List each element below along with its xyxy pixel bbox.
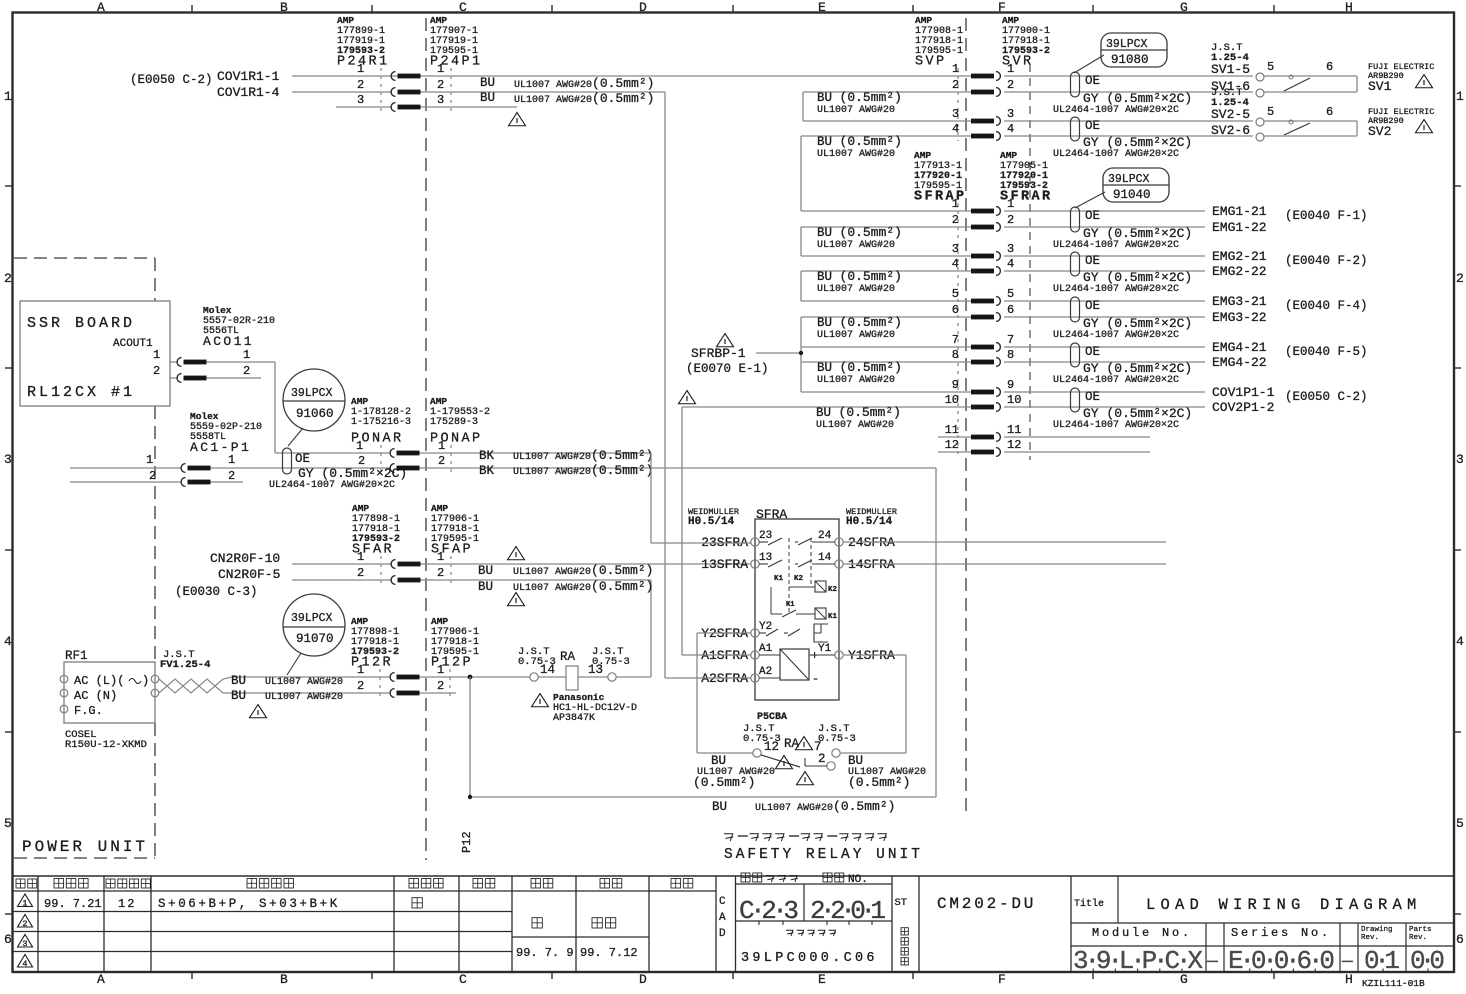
svg-text:ACOUT1: ACOUT1 (113, 338, 153, 350)
svg-text:COV1R1-4: COV1R1-4 (217, 85, 280, 100)
svg-text:13: 13 (588, 663, 603, 677)
svg-text:6: 6 (4, 932, 12, 947)
svg-text:7: 7 (1007, 333, 1014, 347)
svg-text:E·0·0·6·0: E·0·0·6·0 (1228, 946, 1335, 976)
svg-text:A2: A2 (759, 666, 772, 678)
svg-text:EMG2-21: EMG2-21 (1212, 249, 1267, 264)
svg-text:14: 14 (818, 552, 832, 564)
svg-text:SV1: SV1 (1368, 79, 1392, 94)
svg-text:2: 2 (1456, 271, 1464, 286)
svg-text:SV2-5: SV2-5 (1211, 107, 1250, 122)
svg-text:RL12CX #1: RL12CX #1 (27, 384, 135, 401)
svg-text:F: F (998, 972, 1006, 987)
svg-text:SFRBP-1: SFRBP-1 (691, 346, 746, 361)
svg-text:AMP: AMP (430, 15, 447, 26)
svg-text:5: 5 (4, 816, 12, 831)
svg-text:(0.5mm²): (0.5mm²) (848, 775, 910, 790)
svg-text:BU (0.5mm²): BU (0.5mm²) (817, 134, 902, 149)
svg-text:Molex: Molex (190, 411, 219, 422)
svg-text:AMP: AMP (431, 503, 448, 514)
svg-text:AMP: AMP (351, 396, 368, 407)
svg-text:UL2464-1007 AWG#20×2C: UL2464-1007 AWG#20×2C (1053, 330, 1179, 341)
svg-text:BU (0.5mm²): BU (0.5mm²) (817, 315, 902, 330)
svg-text:UL1007 AWG#20: UL1007 AWG#20 (817, 240, 895, 251)
svg-text:Drawing: Drawing (1361, 926, 1393, 934)
svg-text:2: 2 (22, 919, 27, 929)
svg-text:UL2464-1007 AWG#20×2C: UL2464-1007 AWG#20×2C (1053, 240, 1179, 251)
svg-text:UL1007 AWG#20: UL1007 AWG#20 (817, 284, 895, 295)
svg-text:B: B (280, 972, 288, 987)
svg-text:11: 11 (1007, 423, 1021, 437)
svg-text:1: 1 (438, 439, 445, 453)
svg-text:2: 2 (437, 566, 444, 580)
svg-text:AMP: AMP (914, 150, 931, 161)
svg-text:0.75-3: 0.75-3 (818, 733, 856, 745)
svg-text:3: 3 (1007, 242, 1014, 256)
svg-text:9: 9 (1007, 378, 1014, 392)
svg-text:2: 2 (4, 271, 12, 286)
svg-text:0·1: 0·1 (1364, 946, 1400, 976)
svg-text:2: 2 (243, 364, 250, 378)
svg-text:AMP: AMP (1002, 15, 1019, 26)
svg-text:8: 8 (952, 348, 959, 362)
svg-text:4: 4 (4, 634, 12, 649)
svg-text:2: 2 (437, 78, 444, 92)
svg-text:2: 2 (357, 78, 364, 92)
svg-text:6: 6 (1326, 60, 1333, 74)
svg-text:SVP: SVP (915, 55, 947, 70)
svg-text:4: 4 (1007, 122, 1014, 136)
svg-text:7: 7 (952, 333, 959, 347)
svg-text:2: 2 (1007, 213, 1014, 227)
svg-text:Rev.: Rev. (1361, 934, 1379, 942)
svg-text:RF1: RF1 (65, 649, 88, 663)
svg-text:BU (0.5mm²): BU (0.5mm²) (817, 360, 902, 375)
svg-text:(E0050 C-2): (E0050 C-2) (1285, 390, 1368, 404)
svg-text:Series No.: Series No. (1231, 926, 1331, 940)
svg-text:K1: K1 (774, 575, 784, 583)
svg-text:D: D (639, 0, 647, 15)
svg-text:175289-3: 175289-3 (430, 417, 478, 428)
svg-text:A: A (719, 912, 726, 924)
svg-text:Module No.: Module No. (1092, 926, 1192, 940)
svg-text:GY (0.5mm²×2C): GY (0.5mm²×2C) (1083, 135, 1192, 150)
svg-text:EMG3-22: EMG3-22 (1212, 310, 1267, 325)
svg-text:13SFRA: 13SFRA (701, 557, 748, 572)
svg-text:UL1007 AWG#20: UL1007 AWG#20 (817, 105, 895, 116)
svg-text:3·9·L·P·C·X: 3·9·L·P·C·X (1073, 946, 1203, 976)
svg-text:1: 1 (1007, 197, 1014, 211)
svg-text:AMP: AMP (351, 616, 368, 627)
svg-text:12: 12 (118, 897, 136, 911)
svg-text:UL1007 AWG#20: UL1007 AWG#20 (817, 330, 895, 341)
svg-text:—: — (1206, 952, 1218, 972)
svg-text:H0.5/14: H0.5/14 (688, 516, 735, 528)
svg-text:2: 2 (438, 454, 445, 468)
svg-text:11: 11 (945, 423, 959, 437)
svg-text:4: 4 (1007, 257, 1014, 271)
svg-text:39LPCX: 39LPCX (291, 387, 333, 400)
svg-text:POWER UNIT: POWER UNIT (22, 838, 148, 856)
svg-text:GY (0.5mm²×2C): GY (0.5mm²×2C) (298, 466, 407, 481)
svg-text:K1: K1 (828, 613, 838, 621)
svg-text:FV1.25-4: FV1.25-4 (160, 659, 210, 671)
svg-text:P5CBA: P5CBA (757, 712, 787, 723)
svg-text:(E0050 C-2): (E0050 C-2) (130, 73, 213, 87)
svg-text:AMP: AMP (431, 616, 448, 627)
svg-text:(0.5mm²): (0.5mm²) (693, 775, 755, 790)
svg-text:(E0040 F-2): (E0040 F-2) (1285, 254, 1368, 268)
svg-text:91040: 91040 (1113, 188, 1151, 202)
svg-text:1: 1 (146, 453, 153, 467)
svg-text:2: 2 (952, 78, 959, 92)
svg-text:Y2: Y2 (759, 621, 772, 633)
svg-text:5: 5 (1007, 287, 1014, 301)
svg-text:6: 6 (1007, 303, 1014, 317)
svg-text:6: 6 (1456, 932, 1464, 947)
svg-text:BU (0.5mm²): BU (0.5mm²) (816, 405, 901, 420)
svg-text:C: C (719, 896, 726, 908)
svg-text:H0.5/14: H0.5/14 (846, 516, 893, 528)
svg-text:BU (0.5mm²): BU (0.5mm²) (817, 269, 902, 284)
svg-text:1: 1 (357, 550, 364, 564)
svg-text:Title: Title (1074, 898, 1104, 910)
svg-text:B: B (280, 0, 288, 15)
svg-text:AMP: AMP (352, 503, 369, 514)
svg-text:BU: BU (231, 674, 246, 688)
svg-text:H: H (1345, 972, 1353, 987)
svg-text:1: 1 (437, 62, 444, 76)
svg-text:LOAD WIRING DIAGRAM: LOAD WIRING DIAGRAM (1146, 896, 1422, 914)
svg-text:COV1R1-1: COV1R1-1 (217, 69, 280, 84)
svg-text:CN2R0F-5: CN2R0F-5 (218, 567, 280, 582)
svg-text:UL2464-1007 AWG#20×2C: UL2464-1007 AWG#20×2C (1053, 149, 1179, 160)
svg-text:UL2464-1007 AWG#20×2C: UL2464-1007 AWG#20×2C (1053, 284, 1179, 295)
svg-text:—: — (1341, 952, 1353, 972)
svg-text:2: 2 (818, 752, 826, 766)
svg-text:91070: 91070 (296, 632, 334, 646)
svg-text:1: 1 (952, 197, 959, 211)
svg-text:5: 5 (1267, 60, 1274, 74)
svg-text:GY (0.5mm²×2C): GY (0.5mm²×2C) (1083, 226, 1192, 241)
svg-text:2·2·0·1: 2·2·0·1 (810, 896, 886, 926)
svg-text:6: 6 (1326, 105, 1333, 119)
svg-text:3: 3 (1007, 107, 1014, 121)
svg-text:13: 13 (759, 552, 772, 564)
svg-text:OE: OE (1085, 119, 1100, 133)
svg-text:(E0040 F-5): (E0040 F-5) (1285, 345, 1368, 359)
svg-text:4: 4 (22, 959, 27, 969)
svg-text:D: D (719, 928, 726, 940)
svg-text:BK: BK (479, 464, 495, 478)
svg-text:99. 7.12: 99. 7.12 (580, 946, 638, 960)
svg-text:): ) (142, 674, 149, 688)
svg-text:2: 2 (357, 679, 364, 693)
svg-text:1: 1 (356, 439, 363, 453)
svg-text:BU: BU (478, 564, 493, 578)
svg-text:ACO11: ACO11 (203, 334, 254, 349)
svg-text:SV1-5: SV1-5 (1211, 62, 1250, 77)
svg-text:2: 2 (153, 364, 160, 378)
svg-text:Rev.: Rev. (1409, 934, 1427, 942)
svg-text:Molex: Molex (203, 305, 232, 316)
svg-text:EMG4-22: EMG4-22 (1212, 355, 1267, 370)
svg-text:CN2R0F-10: CN2R0F-10 (210, 551, 280, 566)
svg-text:KZIL111-01B: KZIL111-01B (1362, 978, 1425, 989)
svg-text:AC1-P1: AC1-P1 (190, 440, 251, 455)
svg-text:1: 1 (1456, 89, 1464, 104)
svg-text:1: 1 (243, 348, 250, 362)
svg-text:91080: 91080 (1111, 53, 1149, 67)
svg-text:C: C (459, 0, 467, 15)
svg-text:UL1007 AWG#20: UL1007 AWG#20 (265, 692, 343, 703)
svg-text:12: 12 (1007, 438, 1021, 452)
svg-text:1: 1 (4, 89, 12, 104)
svg-text:OE: OE (295, 452, 310, 466)
svg-text:AMP: AMP (430, 396, 447, 407)
svg-text:G: G (1180, 0, 1188, 15)
svg-text:D: D (639, 972, 647, 987)
svg-text:2: 2 (437, 679, 444, 693)
svg-text:10: 10 (945, 393, 959, 407)
svg-text:E: E (818, 972, 826, 987)
svg-text:99. 7.21: 99. 7.21 (44, 897, 102, 911)
svg-text:GY (0.5mm²×2C): GY (0.5mm²×2C) (1083, 361, 1192, 376)
svg-text:ST: ST (895, 897, 908, 909)
svg-text:EMG2-22: EMG2-22 (1212, 264, 1267, 279)
svg-text:2: 2 (952, 213, 959, 227)
svg-text:1: 1 (437, 663, 444, 677)
svg-text:5: 5 (1456, 816, 1464, 831)
svg-text:1-175216-3: 1-175216-3 (351, 417, 411, 428)
svg-text:9: 9 (952, 378, 959, 392)
svg-text:BU: BU (711, 754, 726, 768)
svg-text:6: 6 (952, 303, 959, 317)
svg-text:5: 5 (1267, 105, 1274, 119)
svg-text:4: 4 (1456, 634, 1464, 649)
svg-text:(E0030 C-3): (E0030 C-3) (175, 585, 258, 599)
svg-text:3: 3 (952, 107, 959, 121)
svg-text:1: 1 (153, 348, 160, 362)
svg-text:EMG4-21: EMG4-21 (1212, 340, 1267, 355)
svg-text:E: E (818, 0, 826, 15)
svg-text:RA: RA (560, 650, 576, 664)
svg-text:12: 12 (945, 438, 959, 452)
svg-text:COV1P1-1: COV1P1-1 (1212, 385, 1275, 400)
svg-text:+: + (811, 649, 818, 663)
svg-text:23: 23 (759, 530, 772, 542)
svg-text:A1: A1 (759, 643, 773, 655)
svg-text:A: A (97, 0, 105, 15)
svg-text:COV2P1-2: COV2P1-2 (1212, 400, 1274, 415)
svg-text:H: H (1345, 0, 1353, 15)
svg-text:3: 3 (357, 93, 364, 107)
svg-text:1: 1 (22, 899, 27, 909)
svg-text:EMG3-21: EMG3-21 (1212, 294, 1267, 309)
svg-text:1: 1 (357, 62, 364, 76)
svg-text:Y1: Y1 (818, 643, 832, 655)
svg-text:BU (0.5mm²): BU (0.5mm²) (817, 90, 902, 105)
svg-text:CM202-DU: CM202-DU (937, 895, 1036, 913)
svg-text:F.G.: F.G. (74, 704, 103, 718)
svg-text:BU: BU (712, 800, 727, 814)
svg-text:NO.: NO. (848, 874, 868, 886)
svg-text:UL2464-1007 AWG#20×2C: UL2464-1007 AWG#20×2C (1053, 105, 1179, 116)
svg-text:SAFETY RELAY UNIT: SAFETY RELAY UNIT (724, 847, 923, 863)
svg-text:F: F (998, 0, 1006, 15)
svg-text:SFRA: SFRA (756, 507, 787, 522)
svg-text:3: 3 (437, 93, 444, 107)
svg-text:(E0040 F-1): (E0040 F-1) (1285, 209, 1368, 223)
svg-text:91060: 91060 (296, 407, 334, 421)
svg-text:-: - (812, 672, 819, 686)
svg-text:A: A (97, 972, 105, 987)
svg-text:39LPC000.C06: 39LPC000.C06 (741, 951, 878, 966)
svg-text:1: 1 (1007, 62, 1014, 76)
svg-text:2: 2 (228, 469, 235, 483)
svg-text:UL2464-1007 AWG#20×2C: UL2464-1007 AWG#20×2C (269, 480, 395, 491)
svg-text:Panasonic: Panasonic (553, 692, 605, 703)
svg-text:2: 2 (1007, 78, 1014, 92)
svg-text:10: 10 (1007, 393, 1021, 407)
svg-text:2: 2 (357, 566, 364, 580)
svg-text:RA: RA (784, 737, 800, 751)
svg-text:R150U-12-XKMD: R150U-12-XKMD (65, 739, 147, 751)
svg-text:UL1007 AWG#20: UL1007 AWG#20 (265, 677, 343, 688)
svg-text:EMG1-21: EMG1-21 (1212, 204, 1267, 219)
svg-text:BU (0.5mm²): BU (0.5mm²) (817, 225, 902, 240)
svg-text:39LPCX: 39LPCX (1106, 38, 1148, 51)
svg-text:3: 3 (952, 242, 959, 256)
svg-text:K2: K2 (794, 575, 804, 583)
svg-text:5: 5 (952, 287, 959, 301)
svg-text:3: 3 (1456, 452, 1464, 467)
svg-text:AMP: AMP (337, 15, 354, 26)
svg-text:4: 4 (952, 257, 959, 271)
svg-text:GY (0.5mm²×2C): GY (0.5mm²×2C) (1083, 270, 1192, 285)
svg-text:AMP: AMP (1000, 150, 1017, 161)
svg-text:OE: OE (1085, 209, 1100, 223)
svg-text:AC (N): AC (N) (74, 689, 117, 703)
svg-text:39LPCX: 39LPCX (1108, 173, 1150, 186)
svg-text:OE: OE (1085, 345, 1100, 359)
svg-text:K2: K2 (828, 586, 838, 594)
svg-text:Parts: Parts (1409, 926, 1432, 934)
svg-text:OE: OE (1085, 390, 1100, 404)
svg-text:BU: BU (231, 689, 246, 703)
svg-text:GY (0.5mm²×2C): GY (0.5mm²×2C) (1083, 406, 1192, 421)
svg-text:39LPCX: 39LPCX (291, 612, 333, 625)
svg-text:UL2464-1007 AWG#20×2C: UL2464-1007 AWG#20×2C (1053, 420, 1179, 431)
svg-text:1: 1 (952, 62, 959, 76)
svg-text:OE: OE (1085, 74, 1100, 88)
svg-text:UL2464-1007 AWG#20×2C: UL2464-1007 AWG#20×2C (1053, 375, 1179, 386)
svg-text:UL1007 AWG#20: UL1007 AWG#20 (817, 149, 895, 160)
svg-text:C: C (459, 972, 467, 987)
svg-text:S+06+B+P, S+03+B+K: S+06+B+P, S+03+B+K (158, 897, 340, 911)
svg-text:(E0070 E-1): (E0070 E-1) (686, 362, 769, 376)
svg-text:1: 1 (437, 550, 444, 564)
svg-text:BU: BU (480, 76, 495, 90)
svg-text:99. 7. 9: 99. 7. 9 (516, 946, 574, 960)
svg-text:BK: BK (479, 449, 495, 463)
svg-text:(E0040 F-4): (E0040 F-4) (1285, 299, 1368, 313)
svg-text:AP3847K: AP3847K (553, 713, 595, 724)
svg-text:C·2·3: C·2·3 (739, 896, 799, 926)
svg-text:AMP: AMP (915, 15, 932, 26)
svg-text:OE: OE (1085, 299, 1100, 313)
svg-text:OE: OE (1085, 254, 1100, 268)
svg-text:AC (L)(: AC (L)( (74, 674, 124, 688)
svg-text:UL1007 AWG#20: UL1007 AWG#20 (817, 375, 895, 386)
svg-text:GY (0.5mm²×2C): GY (0.5mm²×2C) (1083, 91, 1192, 106)
svg-text:8: 8 (1007, 348, 1014, 362)
svg-text:K1: K1 (786, 601, 794, 609)
svg-text:EMG1-22: EMG1-22 (1212, 220, 1267, 235)
svg-text:BU: BU (480, 91, 495, 105)
svg-text:SV2-6: SV2-6 (1211, 123, 1250, 138)
svg-text:BU: BU (848, 754, 863, 768)
svg-text:1: 1 (228, 453, 235, 467)
svg-text:2: 2 (149, 469, 156, 483)
svg-text:SV2: SV2 (1368, 124, 1391, 139)
svg-text:14: 14 (540, 663, 555, 677)
svg-text:1: 1 (357, 663, 364, 677)
svg-text:24: 24 (818, 530, 832, 542)
svg-text:12: 12 (764, 740, 779, 754)
svg-text:BU: BU (478, 580, 493, 594)
svg-text:3: 3 (4, 452, 12, 467)
svg-text:SSR BOARD: SSR BOARD (27, 315, 135, 332)
svg-text:3: 3 (22, 939, 27, 949)
svg-text:GY (0.5mm²×2C): GY (0.5mm²×2C) (1083, 316, 1192, 331)
svg-text:P12: P12 (460, 831, 474, 853)
svg-text:UL1007 AWG#20: UL1007 AWG#20 (816, 420, 894, 431)
svg-text:4: 4 (952, 122, 959, 136)
